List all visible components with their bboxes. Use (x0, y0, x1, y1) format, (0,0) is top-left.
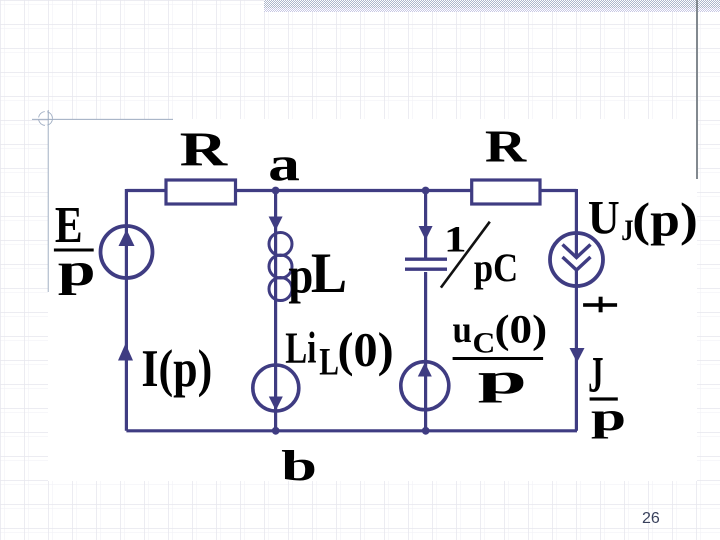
wire right lower (575, 270, 578, 431)
svg-text:p: p (58, 244, 96, 296)
node a dot (272, 187, 280, 195)
arrowhead J wire down (570, 348, 585, 363)
fraction bar uC0 over p (453, 357, 543, 360)
svg-text:p: p (478, 355, 527, 403)
page number 26 (642, 510, 660, 528)
arrowhead branch C down (419, 226, 433, 240)
arrowhead branch a down (269, 217, 283, 231)
svg-text:(0): (0) (495, 308, 548, 352)
corner mark (32, 110, 173, 292)
svg-text:L: L (311, 242, 347, 305)
svg-text:p: p (591, 394, 626, 439)
svg-text:U: U (588, 192, 620, 244)
arrowhead uC0 up (418, 363, 432, 377)
wire branch a inductor (274, 191, 277, 431)
svg-text:(p): (p) (632, 193, 698, 246)
resistor R2 (472, 180, 540, 204)
svg-text:I(p): I(p) (141, 340, 212, 398)
inductor pL loops (269, 233, 292, 301)
arrowhead LiL0 down (269, 397, 283, 411)
wire right upper (575, 189, 578, 257)
svg-text:(0): (0) (338, 323, 394, 377)
wire top (126, 189, 576, 192)
wire bottom (126, 429, 577, 432)
arrowhead Ip up (118, 344, 133, 361)
svg-text:L: L (319, 340, 339, 383)
node b dot (272, 427, 280, 435)
svg-text:1: 1 (444, 219, 467, 260)
chevrons of J source (563, 245, 591, 271)
fraction bar J over p (590, 397, 618, 400)
capacitor C plates (405, 259, 447, 269)
svg-text:p: p (288, 247, 313, 305)
svg-text:R: R (180, 124, 229, 177)
svg-text:a: a (268, 136, 300, 191)
fraction bar E over p (54, 249, 94, 252)
wire branch capacitor lower (424, 272, 427, 431)
node top capacitor dot (422, 187, 430, 195)
wire left (125, 189, 128, 431)
node bottom capacitor dot (422, 427, 430, 435)
source circle E over p (101, 226, 153, 278)
svg-text:u: u (453, 309, 472, 351)
svg-text:pC: pC (474, 245, 518, 290)
right gray vertical rule (696, 0, 698, 179)
decorative top dither band (264, 0, 720, 11)
svg-text:Li: Li (285, 322, 316, 372)
svg-text:b: b (281, 442, 317, 490)
arrowhead E source up (119, 230, 135, 247)
resistor R1 (166, 180, 236, 204)
plus sign (583, 303, 617, 307)
white drawing area (48, 119, 697, 481)
source circle LiL0 (253, 365, 299, 411)
wire branch capacitor upper (424, 191, 427, 260)
source circle J (550, 233, 603, 286)
source circle uC0 over p (401, 362, 449, 410)
slash of 1 over pC (441, 222, 490, 288)
svg-text:R: R (485, 121, 528, 171)
